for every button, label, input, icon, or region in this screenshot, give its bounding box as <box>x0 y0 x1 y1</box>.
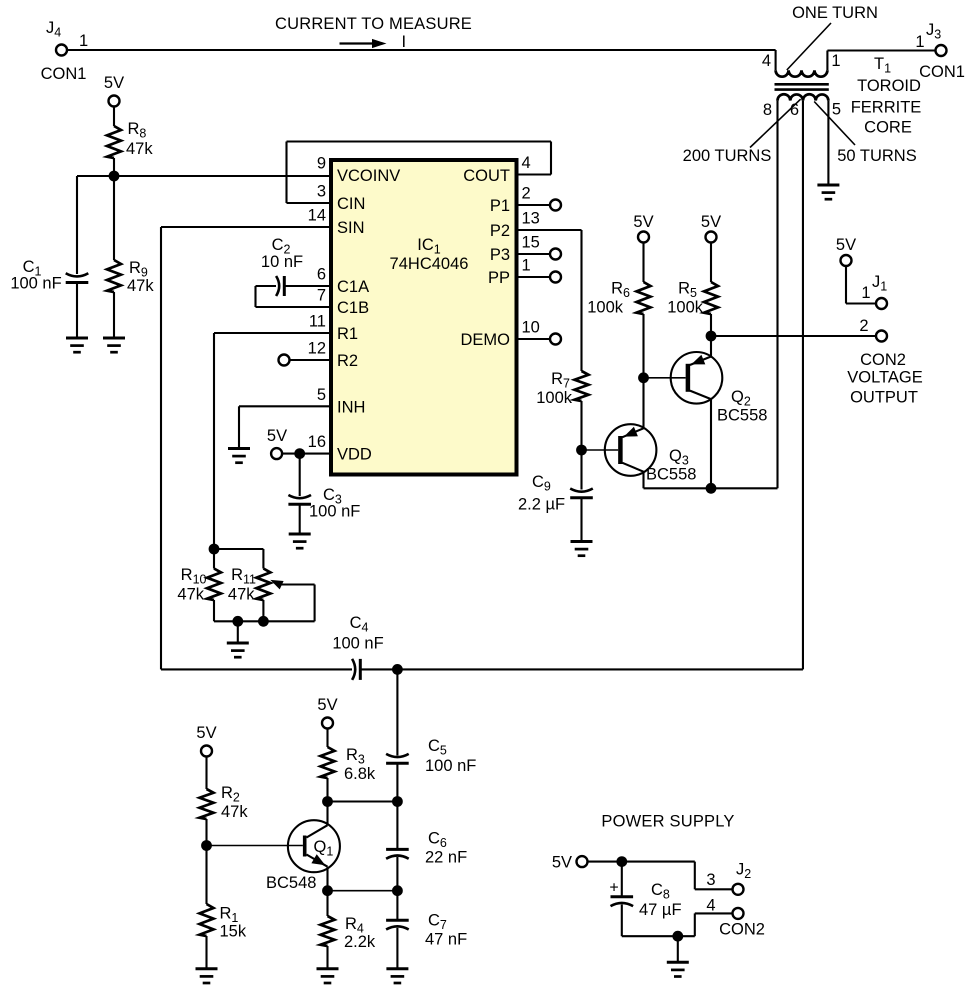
svg-text:15: 15 <box>522 234 540 252</box>
svg-text:5V: 5V <box>633 213 653 231</box>
svg-text:R3: R3 <box>346 746 365 767</box>
svg-text:R2: R2 <box>337 352 358 370</box>
svg-text:J1: J1 <box>872 273 887 294</box>
svg-text:22 nF: 22 nF <box>425 849 467 867</box>
svg-text:C1A: C1A <box>337 278 369 296</box>
svg-text:POWER SUPPLY: POWER SUPPLY <box>601 813 734 831</box>
svg-text:CON1: CON1 <box>41 65 87 83</box>
svg-text:1: 1 <box>861 284 870 302</box>
svg-text:CON2: CON2 <box>719 921 765 939</box>
svg-text:R7: R7 <box>551 370 570 391</box>
svg-text:P3: P3 <box>490 246 510 264</box>
svg-text:13: 13 <box>522 210 540 228</box>
svg-text:4: 4 <box>522 154 531 172</box>
svg-text:100 nF: 100 nF <box>10 275 61 293</box>
svg-text:P1: P1 <box>490 197 510 215</box>
svg-text:R6: R6 <box>611 280 630 301</box>
svg-text:1: 1 <box>831 52 840 70</box>
svg-text:5: 5 <box>317 386 326 404</box>
svg-text:74HC4046: 74HC4046 <box>390 255 469 273</box>
svg-text:PP: PP <box>488 269 510 287</box>
svg-text:50 TURNS: 50 TURNS <box>837 147 916 165</box>
svg-text:T1: T1 <box>874 55 891 76</box>
svg-text:R2: R2 <box>221 784 240 805</box>
svg-text:200 TURNS: 200 TURNS <box>683 147 772 165</box>
svg-text:2.2k: 2.2k <box>344 933 376 951</box>
svg-text:100 nF: 100 nF <box>309 503 360 521</box>
svg-text:1: 1 <box>79 32 88 50</box>
svg-text:ONE TURN: ONE TURN <box>792 4 878 22</box>
svg-text:9: 9 <box>317 155 326 173</box>
svg-text:6: 6 <box>317 266 326 284</box>
svg-text:6: 6 <box>790 101 799 119</box>
svg-text:47k: 47k <box>221 803 248 821</box>
svg-text:100 nF: 100 nF <box>332 635 383 653</box>
svg-text:TOROID: TOROID <box>857 77 921 95</box>
svg-text:CURRENT TO MEASURE: CURRENT TO MEASURE <box>275 15 472 33</box>
svg-text:VDD: VDD <box>337 446 372 464</box>
svg-text:5V: 5V <box>104 74 124 92</box>
svg-text:I: I <box>402 33 407 51</box>
svg-text:3: 3 <box>317 183 326 201</box>
svg-text:SIN: SIN <box>337 219 365 237</box>
svg-text:3: 3 <box>706 871 715 889</box>
svg-text:2: 2 <box>522 185 531 203</box>
svg-text:1: 1 <box>522 257 531 275</box>
svg-text:C7: C7 <box>428 912 447 933</box>
svg-text:J3: J3 <box>926 21 941 42</box>
svg-text:5V: 5V <box>267 427 287 445</box>
svg-text:12: 12 <box>308 340 326 358</box>
svg-text:R8: R8 <box>128 120 147 141</box>
svg-text:11: 11 <box>309 313 326 331</box>
svg-text:VCOINV: VCOINV <box>337 167 400 185</box>
svg-text:2: 2 <box>859 317 868 335</box>
svg-text:R11: R11 <box>231 566 256 587</box>
svg-text:R1: R1 <box>337 325 358 343</box>
svg-text:Q3: Q3 <box>669 447 689 468</box>
svg-text:47k: 47k <box>127 277 154 295</box>
svg-text:47k: 47k <box>126 140 153 158</box>
svg-text:BC558: BC558 <box>646 466 696 484</box>
svg-text:VOLTAGE: VOLTAGE <box>847 369 923 387</box>
svg-text:FERRITE: FERRITE <box>851 99 922 117</box>
svg-text:5: 5 <box>832 101 841 119</box>
svg-text:+: + <box>609 880 618 897</box>
svg-text:COUT: COUT <box>463 167 510 185</box>
svg-text:100 nF: 100 nF <box>425 757 476 775</box>
svg-text:5V: 5V <box>552 854 572 872</box>
svg-text:5V: 5V <box>196 724 216 742</box>
svg-text:R10: R10 <box>181 566 207 587</box>
svg-text:100k: 100k <box>536 389 573 407</box>
svg-text:C6: C6 <box>428 830 447 851</box>
svg-text:10 nF: 10 nF <box>261 253 303 271</box>
svg-text:J4: J4 <box>46 19 61 40</box>
svg-text:4: 4 <box>706 897 715 915</box>
svg-text:C9: C9 <box>532 473 551 494</box>
svg-text:10: 10 <box>522 319 540 337</box>
svg-text:CORE: CORE <box>864 119 912 137</box>
svg-text:R5: R5 <box>678 280 697 301</box>
svg-text:15k: 15k <box>220 923 247 941</box>
svg-text:47k: 47k <box>228 586 255 604</box>
svg-text:14: 14 <box>308 207 326 225</box>
svg-text:Q1: Q1 <box>314 838 334 859</box>
svg-text:P2: P2 <box>490 222 510 240</box>
svg-text:1: 1 <box>915 33 924 51</box>
svg-text:C4: C4 <box>350 614 369 635</box>
svg-text:2.2 µF: 2.2 µF <box>518 496 565 514</box>
svg-text:4: 4 <box>762 52 771 70</box>
svg-text:CON1: CON1 <box>919 63 965 81</box>
svg-text:7: 7 <box>317 287 326 305</box>
svg-text:5V: 5V <box>317 696 337 714</box>
svg-text:6.8k: 6.8k <box>344 765 376 783</box>
svg-text:DEMO: DEMO <box>461 331 511 349</box>
svg-text:47 µF: 47 µF <box>639 901 682 919</box>
svg-text:100k: 100k <box>667 299 704 317</box>
svg-text:5V: 5V <box>836 236 856 254</box>
svg-text:C5: C5 <box>428 737 447 758</box>
svg-text:16: 16 <box>308 433 326 451</box>
svg-text:OUTPUT: OUTPUT <box>850 389 918 407</box>
svg-text:5V: 5V <box>701 213 721 231</box>
svg-text:100k: 100k <box>587 299 624 317</box>
svg-text:C8: C8 <box>651 881 670 902</box>
svg-text:47 nF: 47 nF <box>425 931 467 949</box>
svg-text:Q2: Q2 <box>731 388 751 409</box>
svg-text:CON2: CON2 <box>860 351 906 369</box>
svg-text:BC548: BC548 <box>266 874 316 892</box>
svg-text:C1B: C1B <box>337 299 369 317</box>
svg-text:47k: 47k <box>177 586 204 604</box>
svg-text:8: 8 <box>763 101 772 119</box>
svg-text:INH: INH <box>337 398 365 416</box>
svg-text:BC558: BC558 <box>717 407 767 425</box>
svg-text:CIN: CIN <box>337 195 365 213</box>
svg-text:J2: J2 <box>736 861 751 882</box>
